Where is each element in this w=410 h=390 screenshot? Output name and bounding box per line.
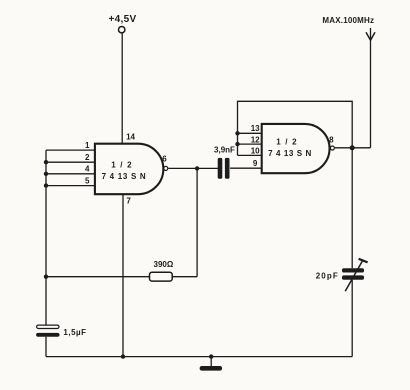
svg-text:14: 14 [126, 133, 135, 142]
svg-text:1 / 2: 1 / 2 [111, 161, 133, 170]
svg-text:2: 2 [85, 153, 90, 162]
svg-text:10: 10 [251, 147, 260, 156]
svg-text:7: 7 [126, 196, 131, 205]
svg-text:MAX.100MHz: MAX.100MHz [322, 16, 374, 25]
svg-text:20pF: 20pF [316, 272, 339, 281]
svg-text:390Ω: 390Ω [154, 260, 174, 269]
svg-text:13: 13 [251, 124, 260, 133]
svg-text:9: 9 [253, 159, 258, 168]
svg-text:+4,5V: +4,5V [109, 14, 137, 25]
svg-text:7 4 13 S N: 7 4 13 S N [268, 149, 312, 158]
svg-text:4: 4 [85, 165, 90, 174]
svg-text:8: 8 [329, 136, 334, 145]
svg-text:1,5µF: 1,5µF [63, 328, 86, 337]
svg-text:3,9nF: 3,9nF [214, 145, 235, 154]
svg-text:1: 1 [85, 141, 90, 150]
svg-text:7 4 13 S N: 7 4 13 S N [102, 172, 147, 181]
svg-text:12: 12 [251, 135, 260, 144]
svg-text:1 / 2: 1 / 2 [276, 138, 298, 147]
svg-text:6: 6 [162, 154, 167, 163]
svg-text:5: 5 [85, 177, 90, 186]
